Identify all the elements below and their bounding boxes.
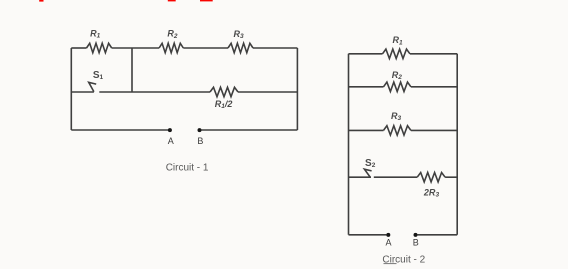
svg-text:A: A xyxy=(385,237,391,247)
svg-text:A: A xyxy=(168,136,174,146)
svg-text:Circuit - 1: Circuit - 1 xyxy=(166,163,209,174)
svg-text:B: B xyxy=(413,237,419,247)
svg-text:B: B xyxy=(197,136,203,146)
